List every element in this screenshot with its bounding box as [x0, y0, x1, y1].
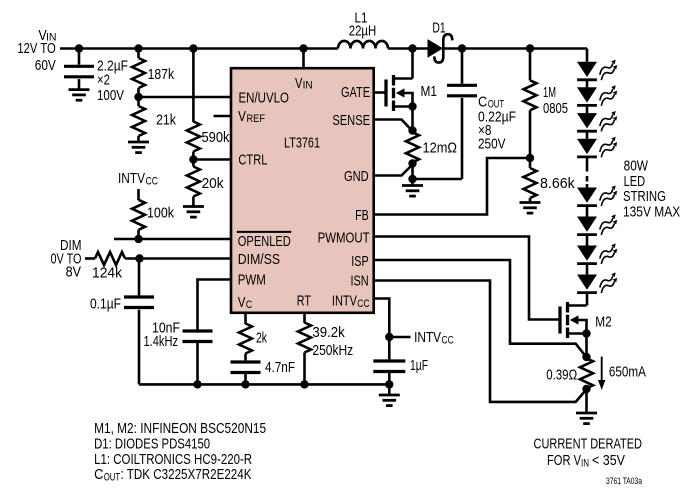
svg-text:124k: 124k — [92, 265, 122, 282]
wire C5 to rail — [388, 372, 391, 385]
resistor R10 1M — [524, 49, 537, 159]
junction R10-R11 FB — [526, 154, 534, 162]
LED D3 — [577, 87, 597, 105]
capacitor C1 2.2uF leads — [78, 49, 81, 91]
label COUT 0.22uF x8 250V — [478, 94, 516, 153]
capacitor COUT leads — [461, 49, 464, 180]
node INTVCC pullup label — [118, 170, 158, 188]
inductor L1 — [338, 41, 388, 49]
svg-text:21k: 21k — [156, 111, 176, 128]
junction VIN-C1 — [75, 44, 83, 52]
svg-text:CC: CC — [146, 176, 159, 188]
svg-text:EN/UVLO: EN/UVLO — [239, 89, 290, 106]
LED D5 — [577, 139, 597, 157]
svg-text:DIM/SS: DIM/SS — [238, 251, 280, 268]
wire VIN rail left — [60, 47, 338, 50]
junction rail-C4 — [241, 380, 249, 388]
svg-text:12V TO: 12V TO — [17, 40, 55, 57]
svg-text:PWM: PWM — [238, 272, 266, 289]
pin label INTVCC (IC) — [332, 293, 370, 311]
svg-text:20k: 20k — [202, 175, 224, 192]
pin label VIN (IC) — [295, 75, 313, 92]
resistor R3 590k — [187, 49, 200, 160]
svg-text:IN: IN — [581, 458, 589, 470]
svg-text:CC: CC — [442, 335, 454, 347]
svg-text:0805: 0805 — [543, 100, 568, 117]
wire bottom rail — [139, 383, 389, 386]
svg-text:4.7nF: 4.7nF — [265, 359, 295, 376]
svg-text:8V: 8V — [66, 264, 81, 281]
svg-text:M1: M1 — [421, 83, 438, 100]
junction VIN-pin — [299, 44, 307, 52]
junction R9 top — [408, 126, 416, 134]
light arrows D4 — [600, 111, 617, 132]
svg-text:100k: 100k — [147, 205, 174, 222]
label 39.2k 250kHz — [312, 324, 353, 359]
junction rail-gnd — [385, 380, 393, 388]
svg-text:FB: FB — [355, 207, 369, 224]
wire CTRL — [193, 158, 231, 161]
pin label OPENLED with overline — [237, 232, 291, 250]
svg-text:650mA: 650mA — [609, 364, 646, 381]
svg-text:V: V — [238, 108, 246, 125]
junction COUT top — [458, 44, 466, 52]
light arrows D7 — [600, 214, 617, 235]
LED D9 — [577, 275, 597, 293]
LED D8 — [577, 246, 597, 264]
LED D6 — [577, 188, 597, 206]
ground R2 — [128, 142, 149, 153]
junction M1 drain — [408, 44, 416, 52]
resistor R1 187k — [132, 49, 145, 98]
svg-text:187k: 187k — [148, 66, 175, 83]
wire VOUT rail right of D1 — [444, 47, 587, 50]
light arrows D8 — [600, 243, 617, 264]
svg-text:250V: 250V — [478, 135, 506, 152]
wire PWMOUT to M2 gate — [374, 237, 560, 320]
wire GATE — [374, 91, 386, 94]
wire PWM — [198, 280, 232, 330]
junction R1-R2 EN/UVLO — [134, 93, 142, 101]
junction R3-R4 CTRL — [189, 155, 197, 163]
wire OPENLED — [114, 238, 231, 241]
svg-text:STRING: STRING — [623, 188, 666, 205]
svg-text:IN: IN — [303, 80, 313, 92]
resistor R4 20k — [187, 160, 200, 207]
junction R9 bottom — [408, 159, 416, 167]
transistor M2 — [560, 302, 591, 338]
capacitor C3 10nF — [183, 331, 213, 342]
wire M1 drain to rail — [411, 49, 414, 79]
pin label VREF — [238, 108, 265, 125]
wire VIN pin drop — [302, 49, 305, 69]
capacitor C2 0.1uF leads — [138, 259, 141, 385]
svg-text:1µF: 1µF — [410, 357, 428, 374]
wire SENSE kelvin — [374, 120, 411, 130]
junction INTVCC node — [385, 333, 393, 341]
label 1M 0805 — [543, 84, 568, 117]
svg-text:OUT: OUT — [104, 471, 121, 483]
wire M2 source to R12 — [585, 334, 588, 358]
label 2.2uF x2 100V — [97, 57, 128, 104]
svg-text:D1: D1 — [432, 20, 445, 37]
node VIN input label — [17, 27, 56, 74]
wire DIM/SS — [125, 257, 231, 260]
svg-text:V: V — [238, 294, 246, 311]
ground R11 — [520, 203, 541, 214]
junction VIN-R3 — [189, 44, 197, 52]
wire R9 to gnd node — [411, 164, 414, 180]
ground C1 — [69, 90, 90, 101]
diode D1 schottky — [428, 34, 453, 62]
light arrows D3 — [600, 85, 617, 106]
svg-text:2k: 2k — [256, 330, 267, 347]
note current derated — [534, 435, 643, 469]
svg-text:60V: 60V — [35, 57, 56, 74]
capacitor C2 0.1uF — [124, 297, 154, 308]
svg-text:SENSE: SENSE — [332, 112, 370, 129]
svg-text:REF: REF — [247, 113, 266, 125]
wire R8 to rail — [303, 353, 306, 385]
wire ISP — [374, 260, 586, 356]
svg-text:250kHz: 250kHz — [312, 342, 353, 359]
capacitor C1 2.2uF — [64, 66, 94, 77]
wire EN/UVLO — [139, 96, 232, 99]
svg-text:1.4kHz: 1.4kHz — [144, 333, 179, 350]
svg-text:CC: CC — [357, 298, 369, 310]
ground M1/R9 — [402, 186, 423, 197]
junction VIN-R1 — [134, 44, 142, 52]
wire RT drop — [303, 313, 306, 324]
ground M2/R12 — [576, 413, 597, 424]
wire C5 lead — [388, 337, 391, 359]
wire R12 to ground — [585, 389, 588, 413]
svg-text:CTRL: CTRL — [238, 151, 267, 168]
svg-text:1M: 1M — [543, 84, 556, 101]
svg-text:< 35V: < 35V — [592, 452, 625, 469]
wire LED string top — [586, 49, 589, 167]
svg-text:100V: 100V — [97, 87, 124, 104]
svg-text:V: V — [295, 75, 302, 92]
wire VREF stub — [214, 115, 232, 118]
svg-text:ISP: ISP — [351, 253, 368, 270]
LED D7 — [577, 217, 597, 235]
wire LED string bottom — [586, 184, 589, 306]
ground bottom rail — [379, 395, 400, 406]
transistor M1 — [386, 75, 417, 111]
wire R7-C4 — [244, 354, 247, 361]
junction rail-C3 — [193, 380, 201, 388]
svg-text:INTV: INTV — [414, 329, 441, 346]
svg-text:590k: 590k — [202, 129, 230, 146]
wire C3 to rail — [196, 342, 199, 385]
resistor R5 100k — [132, 189, 145, 239]
node INTVCC label (right) — [414, 329, 454, 346]
svg-text:: TDK C3225X7R2E224K: : TDK C3225X7R2E224K — [121, 466, 252, 483]
junction rail-R8 — [300, 380, 308, 388]
resistor R12 0.39ohm — [580, 357, 593, 389]
svg-text:0.39Ω: 0.39Ω — [546, 366, 577, 383]
note component list — [94, 420, 266, 483]
wire C4 to rail — [244, 373, 247, 385]
svg-text:C: C — [94, 466, 103, 483]
op-amp-IC U1 LT3761 body — [231, 68, 374, 313]
ground R4 — [183, 207, 204, 218]
wire gnd lead M1 — [411, 179, 414, 186]
junction DIM-C2 — [135, 254, 143, 262]
capacitor C5 1uF — [373, 361, 405, 372]
current arrow 650mA — [598, 357, 605, 390]
resistor R9 12mohm — [406, 131, 419, 164]
light arrows D6 — [600, 185, 617, 206]
svg-text:INTV: INTV — [118, 170, 145, 187]
wire DIM lead — [85, 257, 95, 260]
wire ISN — [374, 281, 586, 402]
wire VIN rail to D1 — [388, 47, 428, 50]
svg-text:PWMOUT: PWMOUT — [318, 230, 370, 247]
wire COUT return — [413, 178, 463, 181]
wire LED string dashed — [586, 166, 589, 184]
light arrows D9 — [600, 272, 617, 293]
light arrows D5 — [600, 137, 617, 158]
svg-text:GATE: GATE — [341, 84, 370, 101]
LED D4 — [577, 113, 597, 131]
svg-text:OPENLED: OPENLED — [238, 233, 291, 250]
svg-text:INTV: INTV — [332, 293, 357, 310]
junction COUT return — [408, 175, 416, 183]
svg-text:3761 TA03a: 3761 TA03a — [606, 476, 643, 487]
wire M1 source to R9 — [411, 107, 414, 131]
junction R12 bottom — [582, 385, 590, 393]
svg-text:LT3761: LT3761 — [284, 135, 320, 152]
svg-text:12mΩ: 12mΩ — [423, 140, 458, 157]
svg-text:8.66k: 8.66k — [540, 175, 575, 192]
wire INTVCC pin to C5 — [374, 299, 390, 338]
label 10nF 1.4kHz — [144, 320, 181, 351]
wire GND kelvin — [374, 166, 411, 176]
junction R12 top — [582, 353, 590, 361]
junction R-1M top — [526, 44, 534, 52]
svg-text:135V MAX: 135V MAX — [623, 204, 680, 221]
resistor R11 8.66k — [524, 158, 537, 203]
svg-text:22µH: 22µH — [349, 22, 377, 39]
wire gnd lead — [388, 384, 391, 395]
resistor R7 2k — [239, 324, 252, 354]
capacitor C4 4.7nF — [231, 362, 261, 373]
LED D2 — [577, 62, 597, 80]
svg-text:M2: M2 — [595, 313, 612, 330]
light arrows D2 — [600, 60, 617, 81]
svg-text:GND: GND — [344, 168, 369, 185]
svg-text:39.2k: 39.2k — [312, 324, 345, 341]
pin label VC — [238, 294, 253, 311]
node DIM input label — [51, 237, 82, 281]
wire FB — [374, 158, 530, 215]
wire VC drop — [244, 313, 247, 325]
wire INTVCC stub — [389, 336, 410, 339]
junction R5-OPENLED — [134, 235, 142, 243]
svg-text:RT: RT — [297, 293, 311, 310]
svg-text:CURRENT DERATED: CURRENT DERATED — [534, 435, 643, 452]
resistor R2 21k — [132, 97, 145, 142]
svg-text:0.1µF: 0.1µF — [90, 296, 121, 313]
resistor R6 124k — [95, 252, 125, 265]
svg-text:C: C — [246, 299, 253, 311]
svg-text:FOR V: FOR V — [547, 452, 581, 469]
capacitor COUT — [447, 85, 477, 96]
label 80W LED STRING 135V MAX — [623, 158, 680, 221]
resistor R8 39.2k — [298, 323, 311, 353]
svg-text:ISN: ISN — [351, 272, 369, 289]
